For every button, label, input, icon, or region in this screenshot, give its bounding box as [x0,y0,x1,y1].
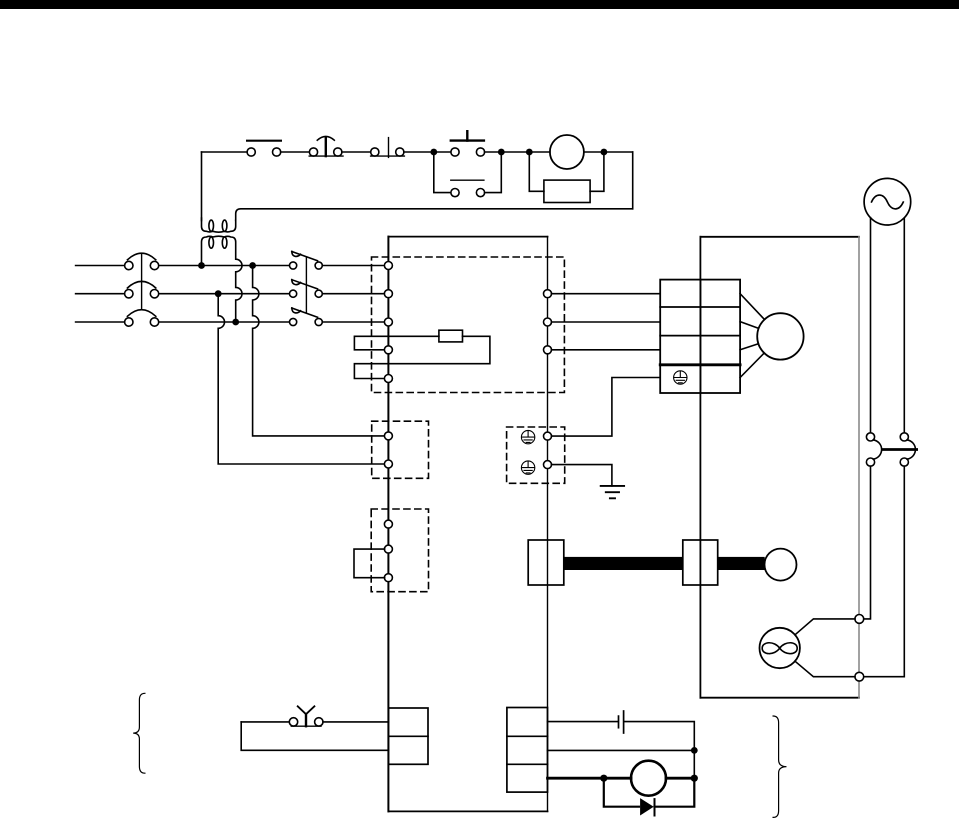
breaker QF1 tie bar [141,253,143,310]
node J4 [601,149,608,156]
wire lamp lower lead [795,661,855,677]
wire [281,151,310,153]
wire V output to terminal block [552,321,661,323]
transformer T1 primary winding, left leg to L1, right leg to L3 (hops L1,L2) [202,236,243,322]
wire lamp upper lead [795,619,855,635]
inverter unit top edge [388,236,547,238]
motor terminal block TB1 [660,280,740,393]
fan motor M2 [631,761,666,796]
node L2 tap junction [215,290,222,297]
contact S3 (NO) [371,138,405,158]
wire control-loop left vertical [201,152,203,221]
terminal R [384,262,392,270]
dashed block: control input terminals [372,421,429,478]
wire L2 tap down to terminal S (hops L3) [218,294,384,464]
terminal T [384,318,392,326]
contact S5 holding (NC, lower parallel branch) [434,152,502,197]
wire thermal loop left and lower return [241,722,388,750]
motor lead PE [740,353,764,378]
terminal block TB3 (3 pole) [507,708,548,793]
node fan-left [600,775,607,782]
work lamp EL1 [760,628,800,668]
wire L1 tap down to terminal R (hops L2,L3) [253,266,385,436]
breaker QF1 pole 2 [125,281,159,298]
capacitor C1 [619,711,624,733]
wire control top segment 1 [202,151,248,153]
node rail-low [691,775,698,782]
node L3-T1 junction [232,319,239,326]
terminal A2 [384,545,392,553]
right option brace [773,716,786,817]
wire [604,151,633,153]
wire AC source right lead [903,218,905,433]
thermal switch loop upper wire [241,721,289,723]
contact S2 start pushbutton (NO) [309,136,343,156]
terminal G1 [544,432,552,440]
lamp terminal 2 [855,672,864,681]
wire phase L2 [76,293,290,295]
power switch S10 tie bar [883,448,917,451]
node J2 [498,149,505,156]
PE symbol in TB1 ground cell [674,371,687,384]
left option brace [133,693,145,773]
terminal P1 [384,375,392,383]
terminal A1 [384,520,392,528]
terminal V [544,318,552,326]
inverter unit right bus line [547,237,549,812]
power switch S10 pole 2 [900,433,915,466]
terminal COM [384,460,392,468]
wire switch pole1 to lamp terminal 1 [864,466,871,619]
wire TB3-3 to fan motor (bold) [548,777,632,780]
node rail-mid [691,747,698,754]
wire TB3-1 to capacitor [548,721,618,723]
wire [501,151,529,153]
node J1 [430,149,437,156]
wire phase L3 [76,321,290,323]
wire G1 to motor ground row [552,378,661,437]
thermal switch S20 [289,706,323,726]
terminal U [544,290,552,298]
shaft bar 1 [564,557,683,570]
transformer T1 secondary winding [202,218,236,232]
motor lead V [740,322,759,329]
terminal S [384,290,392,298]
wire TB3-2 to right rail [548,749,695,751]
wire Q1 pole3 to inverter T [322,321,384,323]
dashed block: aux terminals [371,509,428,592]
machine enclosure box [700,237,859,698]
terminal P [384,346,392,354]
wire [584,151,604,153]
wire switch pole2 to lamp terminal 2 [864,466,904,677]
wire phase L1 [76,265,290,267]
contact S1 stop (NC) [247,141,281,156]
motor lead W [740,344,758,350]
motor lead U [740,294,764,320]
shaft bar 2 [718,557,765,570]
contact S4 jog pushbutton (NO, upper) [434,131,502,156]
terminal FWD [384,432,392,440]
header bar [0,0,959,9]
wire W output to terminal block [552,349,661,351]
terminal G2 [544,461,552,469]
PE symbol at G2 [521,461,534,474]
resistor R1 (parallel with coil) [529,152,604,203]
lamp terminal 1 [855,615,864,624]
inverter unit bottom edge [388,810,547,812]
terminal W [544,346,552,354]
jumper link A2-A3 [354,549,385,578]
diode D1 [640,798,654,815]
motor M1 [757,313,803,359]
inverter unit left bus line [387,237,389,812]
disconnect switch Q1 pole 2 [290,280,323,298]
disconnect switch Q1 pole 1 [290,252,323,270]
wire Q1 pole1 to inverter R [322,265,384,267]
dashed block: power terminals [372,257,565,393]
wire [342,151,371,153]
coil K1 (contactor coil) [550,135,584,169]
wire fan motor to right rail (bold) [666,777,694,780]
wire diode branch [604,778,639,807]
breaker QF1 pole 1 [125,253,159,269]
wire control-loop bottom return [236,209,633,221]
fuse link loop between terminals P and P1 [354,336,490,378]
wire thermal switch to terminal block TB2 [323,721,388,723]
wire [529,151,550,153]
disconnect switch Q1 tie bar [305,257,307,312]
wire rail mid to low [693,750,695,778]
wire Q1 pole2 to inverter S [322,293,384,295]
terminal block TB2 (2 pole) [388,708,428,764]
fuse F1 [439,330,463,342]
dashed block: ground terminals [507,427,565,483]
wire [404,151,434,153]
shaft end rotor circle [765,549,797,581]
terminal A3 [384,574,392,582]
shaft coupling 2 [683,540,718,585]
power switch S10 pole 1 [866,433,881,466]
wire AC source left lead [870,218,872,433]
ground (earth) symbol [601,486,624,498]
PE symbol at G1 [521,430,534,443]
AC supply source G [864,178,911,225]
shaft coupling 1 [528,540,564,585]
wire capacitor to right rail [625,722,695,751]
breaker QF1 pole 3 [125,310,159,326]
wire G2 to earth [552,465,612,486]
node L1 tap junction [249,262,256,269]
wire U output to terminal block [552,293,661,295]
node L1-T1 junction [198,262,205,269]
wire diode to right rail [655,778,695,807]
node J3 [526,149,533,156]
disconnect switch Q1 pole 3 [290,308,323,326]
wire control-loop right vertical [632,152,634,209]
